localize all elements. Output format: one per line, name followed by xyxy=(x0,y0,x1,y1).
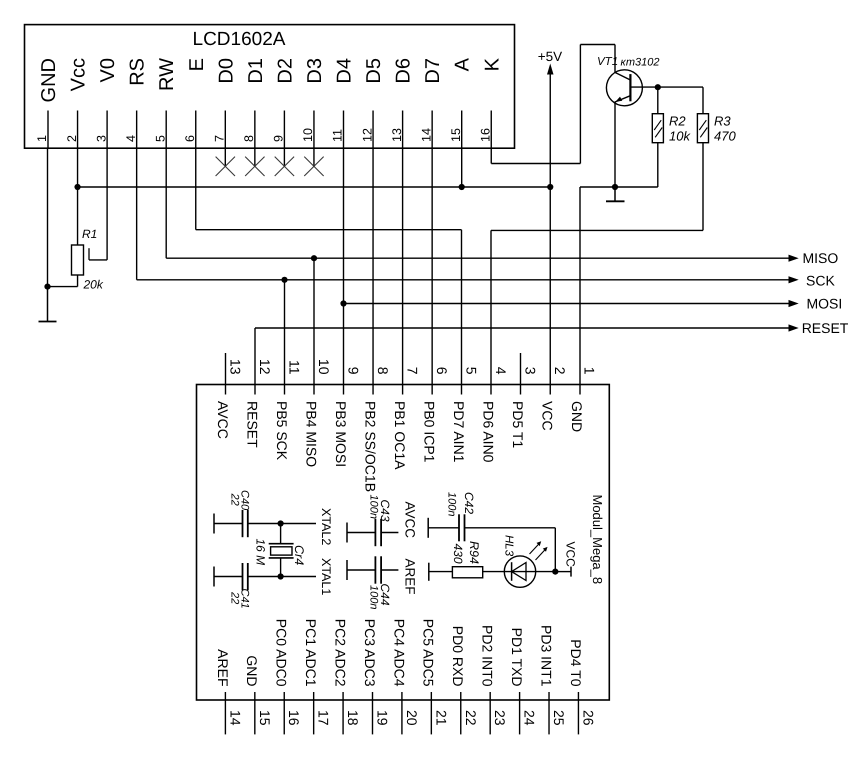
ATmega bottom pin 24 stub xyxy=(519,692,521,734)
wire LCD D5 pin12 down to ATmega pin8 PB2 xyxy=(372,148,374,394)
wire LCD GND pin1 down xyxy=(47,148,49,286)
svg-text:D7: D7 xyxy=(422,58,444,84)
svg-text:R2: R2 xyxy=(669,114,686,129)
svg-text:8: 8 xyxy=(375,367,391,375)
svg-text:PB1 OC1A: PB1 OC1A xyxy=(392,401,408,470)
junction XTAL2/crystal xyxy=(278,520,284,526)
wire LCD D7 pin14 down to ATmega pin6 PB0 xyxy=(431,148,433,394)
svg-text:24: 24 xyxy=(522,710,538,726)
svg-text:12: 12 xyxy=(360,128,374,142)
svg-text:PD3 INT1: PD3 INT1 xyxy=(538,625,554,687)
wire LCD A pin15 down to Vcc rail xyxy=(461,148,463,187)
capacitor C44 terminal bar xyxy=(346,560,348,580)
wire K up xyxy=(579,45,581,164)
junction +5V on Vcc rail xyxy=(547,184,553,190)
svg-text:GND: GND xyxy=(569,401,585,432)
LCD pin 5 stub xyxy=(165,111,167,149)
LCD pin 12 stub xyxy=(372,111,374,149)
SCK arrow xyxy=(789,276,799,283)
svg-text:PB5 SCK: PB5 SCK xyxy=(274,401,290,461)
svg-text:15: 15 xyxy=(257,710,273,726)
ground net horizontal xyxy=(580,186,658,188)
svg-text:D5: D5 xyxy=(363,58,385,84)
wire E horizontal to PD7 xyxy=(196,229,462,231)
svg-text:22: 22 xyxy=(463,710,479,726)
R94 right lead to LED xyxy=(483,571,556,573)
svg-text:100n: 100n xyxy=(446,492,458,516)
junction MOSI branch xyxy=(340,300,346,306)
svg-text:25: 25 xyxy=(551,710,567,726)
C40 right lead to XTAL2 xyxy=(248,523,316,525)
Vcc rail horizontal xyxy=(78,186,551,188)
LCD pin 15 stub xyxy=(461,111,463,149)
HL3 emission arrow 2 xyxy=(536,549,546,560)
wire LCD D4 pin11 down to ATmega pin9 PB3 xyxy=(343,148,345,394)
svg-text:20: 20 xyxy=(404,710,420,726)
svg-text:8: 8 xyxy=(242,135,256,142)
junction LED/C42/VCC xyxy=(552,569,558,575)
ATmega bottom pin 20 stub xyxy=(401,692,403,734)
svg-text:15: 15 xyxy=(449,128,463,142)
SCK net horizontal (RS to arrow) xyxy=(137,279,790,281)
svg-text:SCK: SCK xyxy=(806,273,835,289)
junction GND/R1 bottom xyxy=(44,284,50,290)
wire ATmega pin1 GND up xyxy=(579,187,581,395)
wire ATmega pin10 up to MISO line xyxy=(313,258,315,394)
LCD pin 2 stub xyxy=(77,111,79,149)
svg-text:14: 14 xyxy=(419,128,433,142)
svg-text:MOSI: MOSI xyxy=(807,296,843,312)
svg-text:18: 18 xyxy=(345,710,361,726)
ATmega bottom pin 23 stub xyxy=(489,692,491,734)
svg-text:V0: V0 xyxy=(97,58,119,82)
svg-text:5: 5 xyxy=(464,367,480,375)
wire K top to collector xyxy=(580,44,615,46)
svg-text:XTAL1: XTAL1 xyxy=(319,558,333,595)
svg-text:PD6 AIN0: PD6 AIN0 xyxy=(480,401,496,463)
LCD pin 16 stub xyxy=(490,111,492,149)
no-connect X mark D3 xyxy=(304,157,323,176)
crystal Cr4 plates and body xyxy=(269,543,294,545)
svg-text:PB2 SS/OC1B: PB2 SS/OC1B xyxy=(362,401,378,492)
wire LCD RS pin4 down xyxy=(136,148,138,280)
ATmega bottom pin 19 stub xyxy=(372,692,374,734)
transistor VT1 circle xyxy=(606,70,642,106)
svg-text:D0: D0 xyxy=(215,58,237,84)
svg-text:21: 21 xyxy=(433,710,449,726)
C42 right lead xyxy=(465,527,556,529)
C43 left lead xyxy=(347,532,375,534)
wire R3 to PD6 horizontal xyxy=(491,229,703,231)
LCD pin 10 stub xyxy=(313,111,315,149)
crystal Cr4 top lead xyxy=(280,524,282,544)
wire emitter down to ground junction xyxy=(614,102,616,188)
wire LCD V0 pin3 down to wiper xyxy=(106,148,108,260)
resistor R2 xyxy=(652,114,663,143)
wire to VCC terminal xyxy=(555,571,571,573)
ATmega bottom pin 16 stub xyxy=(283,692,285,734)
+5V wire down to ATmega pin2 VCC xyxy=(549,74,551,395)
ATmega module box Modul_Mega_8 xyxy=(197,385,610,701)
svg-text:R94: R94 xyxy=(467,541,481,564)
VT1 emitter arrowhead xyxy=(615,97,622,102)
svg-text:GND: GND xyxy=(244,655,260,686)
svg-text:470: 470 xyxy=(714,129,736,144)
svg-text:Cr4: Cr4 xyxy=(292,545,306,565)
wire LCD K pin16 down xyxy=(490,148,492,163)
wire R2 bottom lead xyxy=(657,143,659,187)
junction XTAL1/crystal xyxy=(278,573,284,579)
no-connect X mark D0 xyxy=(216,157,235,176)
svg-text:PC0 ADC0: PC0 ADC0 xyxy=(274,619,290,687)
svg-text:+5V: +5V xyxy=(538,49,562,64)
ATmega bottom pin 14 stub xyxy=(224,692,226,734)
HL3 cathode bar xyxy=(511,562,513,581)
svg-text:2: 2 xyxy=(65,135,79,142)
resistor R94 xyxy=(452,567,482,578)
svg-text:PC4 ADC4: PC4 ADC4 xyxy=(391,619,407,687)
svg-text:16: 16 xyxy=(286,710,302,726)
svg-text:13: 13 xyxy=(228,359,244,375)
svg-text:K: K xyxy=(481,57,503,71)
R1 bottom lead xyxy=(77,275,79,287)
wire ATmega pin12 RESET up xyxy=(254,328,256,395)
capacitor C41 plates xyxy=(242,563,244,590)
svg-text:MISO: MISO xyxy=(803,250,839,266)
LCD pin 4 stub xyxy=(136,111,138,149)
+5V arrow xyxy=(547,64,554,75)
wire ATmega pin11 up to SCK line xyxy=(284,280,286,395)
svg-text:D3: D3 xyxy=(304,58,326,84)
svg-text:16 M: 16 M xyxy=(254,539,268,566)
svg-text:13: 13 xyxy=(390,128,404,142)
svg-text:RW: RW xyxy=(156,58,178,91)
RESET arrow xyxy=(789,324,799,331)
svg-text:E: E xyxy=(186,58,208,71)
wire R2 top lead xyxy=(657,87,659,114)
svg-text:PD1 TXD: PD1 TXD xyxy=(509,628,525,687)
svg-text:PD4 T0: PD4 T0 xyxy=(568,639,584,686)
VT1 collector diagonal xyxy=(615,73,630,81)
svg-text:RS: RS xyxy=(127,58,149,86)
junction A pin on Vcc rail xyxy=(459,184,465,190)
svg-text:14: 14 xyxy=(227,710,243,726)
svg-text:7: 7 xyxy=(213,135,227,142)
ATmega bottom pin 15 stub xyxy=(254,692,256,734)
svg-text:PC2 ADC2: PC2 ADC2 xyxy=(332,619,348,687)
svg-text:PB4 MISO: PB4 MISO xyxy=(303,401,319,467)
wire LCD RW pin5 down xyxy=(165,148,167,258)
LCD pin 8 D1 no-connect stub xyxy=(254,148,256,166)
capacitor C44 plates xyxy=(374,556,376,583)
HL3 emission arrow 1 xyxy=(530,543,540,554)
svg-text:430: 430 xyxy=(451,544,465,564)
capacitor C40 terminal bar xyxy=(213,514,215,534)
LCD pin 3 stub xyxy=(106,111,108,149)
C44 right lead to AREF xyxy=(381,569,398,571)
wire down to ATmega pin5 PD7 xyxy=(461,230,463,395)
svg-text:1: 1 xyxy=(582,367,598,375)
C42 wire down to VCC node xyxy=(554,528,556,572)
svg-text:7: 7 xyxy=(405,367,421,375)
junction Vcc rail xyxy=(74,184,80,190)
junction base/R2/R3 xyxy=(655,84,661,90)
LCD pin 1 stub xyxy=(47,111,49,149)
C44 left lead xyxy=(347,569,375,571)
R3 power slashes xyxy=(699,120,706,130)
ground symbol right xyxy=(614,187,616,201)
ATmega bottom pin 26 stub xyxy=(577,692,579,734)
C42 left lead xyxy=(428,527,459,529)
svg-text:1: 1 xyxy=(35,135,49,142)
junction ATmega PB4 MISO on MISO line xyxy=(311,255,317,261)
no-connect X mark D2 xyxy=(275,157,294,176)
svg-text:D4: D4 xyxy=(334,58,356,84)
svg-text:Modul_Mega_8: Modul_Mega_8 xyxy=(590,495,605,585)
C43 right lead to AVCC xyxy=(381,532,398,534)
wire collector down xyxy=(614,45,616,73)
LCD pin 9 stub xyxy=(283,111,285,149)
C41 left lead xyxy=(214,576,243,578)
svg-text:11: 11 xyxy=(331,129,345,142)
ATmega pin13 AVCC stub xyxy=(225,353,227,395)
svg-text:10: 10 xyxy=(316,359,332,375)
svg-text:23: 23 xyxy=(492,710,508,726)
R1 wiper xyxy=(88,248,90,260)
capacitor C42 terminal bar xyxy=(427,518,429,538)
svg-text:4: 4 xyxy=(124,135,138,142)
svg-text:PB0 ICP1: PB0 ICP1 xyxy=(421,401,437,463)
svg-text:C42: C42 xyxy=(462,492,476,514)
junction ATmega PB5 SCK on SCK line xyxy=(281,277,287,283)
capacitor C40 plates xyxy=(242,510,244,537)
capacitor C41 terminal bar xyxy=(213,567,215,587)
svg-text:22: 22 xyxy=(229,493,241,506)
LCD pin 13 stub xyxy=(402,111,404,149)
svg-text:26: 26 xyxy=(580,710,596,726)
ATmega bottom pin 17 stub xyxy=(313,692,315,734)
svg-text:10k: 10k xyxy=(669,129,691,144)
svg-text:A: A xyxy=(452,57,474,71)
HL3 diode triangle xyxy=(512,563,526,581)
svg-text:9: 9 xyxy=(272,135,286,142)
VT1 emitter diagonal xyxy=(615,96,630,102)
svg-text:19: 19 xyxy=(375,710,391,726)
no-connect X mark D1 xyxy=(245,157,264,176)
ground symbol left xyxy=(47,287,49,322)
C40 left lead xyxy=(214,523,243,525)
svg-text:PD7 AIN1: PD7 AIN1 xyxy=(451,401,467,463)
svg-text:D2: D2 xyxy=(274,58,296,84)
capacitor C43 plates xyxy=(374,519,376,546)
LCD pin 6 stub xyxy=(195,111,197,149)
svg-text:4: 4 xyxy=(493,367,509,375)
svg-text:5: 5 xyxy=(153,135,167,142)
svg-text:LCD1602A: LCD1602A xyxy=(193,29,286,50)
svg-text:PD0 RXD: PD0 RXD xyxy=(450,626,466,687)
svg-text:PC5 ADC5: PC5 ADC5 xyxy=(421,619,437,687)
svg-text:PB3 MOSI: PB3 MOSI xyxy=(333,401,349,467)
LCD pin 10 D3 no-connect stub xyxy=(313,148,315,166)
svg-text:RESET: RESET xyxy=(802,320,849,336)
LCD pin 11 stub xyxy=(343,111,345,149)
svg-text:AVCC: AVCC xyxy=(215,401,231,439)
LCD pin 14 stub xyxy=(431,111,433,149)
resistor R94 terminal bar xyxy=(428,563,430,581)
svg-text:3: 3 xyxy=(94,135,108,142)
svg-text:D1: D1 xyxy=(245,58,267,84)
LED HL3 circle xyxy=(504,556,535,587)
RESET net horizontal xyxy=(255,327,790,329)
svg-text:9: 9 xyxy=(346,367,362,375)
svg-text:100n: 100n xyxy=(368,585,380,609)
svg-text:22: 22 xyxy=(229,591,241,604)
R2 power slashes xyxy=(654,120,661,130)
R94 left lead xyxy=(429,571,453,573)
svg-text:16: 16 xyxy=(478,128,492,142)
svg-text:3: 3 xyxy=(523,367,539,375)
junction emitter/ground xyxy=(612,184,618,190)
LCD1602A module box xyxy=(25,25,515,149)
svg-text:R3: R3 xyxy=(714,114,731,129)
ATmega bottom pin 21 stub xyxy=(430,692,432,734)
wire LCD E pin6 down xyxy=(195,148,197,230)
MOSI net horizontal xyxy=(344,303,790,305)
wire LCD D6 pin13 down to ATmega pin7 PB1 xyxy=(402,148,404,394)
svg-text:VCC: VCC xyxy=(564,542,578,568)
svg-text:R1: R1 xyxy=(82,227,97,241)
potentiometer R1 xyxy=(72,245,84,275)
MOSI arrow xyxy=(789,300,799,307)
wire down to ATmega pin4 PD6 xyxy=(490,230,492,394)
svg-text:XTAL2: XTAL2 xyxy=(319,508,333,545)
capacitor C43 terminal bar xyxy=(346,523,348,543)
svg-text:Vcc: Vcc xyxy=(68,58,90,91)
svg-text:VT1: VT1 xyxy=(597,56,618,68)
ATmega bottom pin 25 stub xyxy=(548,692,550,734)
VT1 base bar xyxy=(629,74,631,101)
LCD pin 9 D2 no-connect stub xyxy=(283,148,285,166)
svg-text:12: 12 xyxy=(257,359,273,375)
wire VT1 base to R3 top node xyxy=(630,86,703,88)
svg-text:17: 17 xyxy=(316,710,332,726)
C41 right lead to XTAL1 xyxy=(248,576,316,578)
svg-text:RESET: RESET xyxy=(244,401,260,448)
svg-text:PC1 ADC1: PC1 ADC1 xyxy=(303,619,319,687)
svg-text:6: 6 xyxy=(183,135,197,142)
svg-text:10: 10 xyxy=(301,128,315,142)
ATmega bottom pin 22 stub xyxy=(460,692,462,734)
capacitor C42 plates xyxy=(458,514,460,541)
svg-text:2: 2 xyxy=(552,367,568,375)
wire R3 bottom lead down xyxy=(702,143,704,231)
wire R3 top lead xyxy=(702,87,704,114)
crystal Cr4 bottom lead xyxy=(280,558,282,577)
svg-text:11: 11 xyxy=(287,360,303,375)
svg-text:6: 6 xyxy=(434,367,450,375)
MISO net horizontal (RW to arrow) xyxy=(166,257,789,259)
svg-text:D6: D6 xyxy=(393,58,415,84)
LCD pin 7 D0 no-connect stub xyxy=(224,148,226,166)
svg-text:AVCC: AVCC xyxy=(403,502,418,539)
wire K horizontal xyxy=(491,163,580,165)
LCD pin 7 stub xyxy=(224,111,226,149)
resistor R3 xyxy=(697,114,708,143)
svg-text:PD5 T1: PD5 T1 xyxy=(510,401,526,448)
svg-text:AREF: AREF xyxy=(215,649,231,686)
ATmega pin3 PD5 stub xyxy=(520,353,522,395)
svg-text:VCC: VCC xyxy=(539,401,555,431)
ATmega bottom pin 18 stub xyxy=(342,692,344,734)
wire LCD Vcc pin2 down to R1 top xyxy=(77,148,79,245)
svg-text:100n: 100n xyxy=(368,495,380,519)
svg-text:PC3 ADC3: PC3 ADC3 xyxy=(362,619,378,687)
svg-text:PD2 INT0: PD2 INT0 xyxy=(480,625,496,687)
svg-text:HL3: HL3 xyxy=(503,535,515,557)
svg-text:GND: GND xyxy=(38,58,60,102)
LCD pin 8 stub xyxy=(254,111,256,149)
MISO arrow xyxy=(789,255,799,262)
svg-text:20k: 20k xyxy=(83,278,104,292)
svg-text:кт3102: кт3102 xyxy=(621,57,660,69)
svg-text:AREF: AREF xyxy=(403,559,418,595)
